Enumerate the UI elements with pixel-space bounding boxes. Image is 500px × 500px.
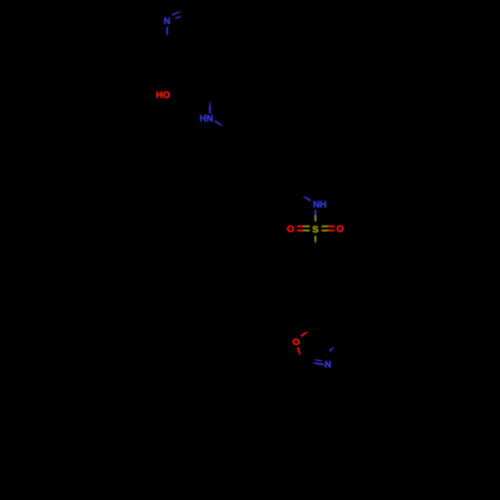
svg-text:HO: HO	[156, 90, 170, 101]
svg-text:N: N	[164, 16, 171, 27]
svg-text:O: O	[336, 224, 343, 235]
svg-text:S: S	[312, 224, 318, 235]
svg-text:HN: HN	[200, 114, 214, 125]
svg-text:O: O	[292, 337, 299, 348]
svg-text:NH: NH	[313, 200, 327, 211]
svg-text:O: O	[287, 224, 294, 235]
svg-text:N: N	[324, 359, 331, 370]
